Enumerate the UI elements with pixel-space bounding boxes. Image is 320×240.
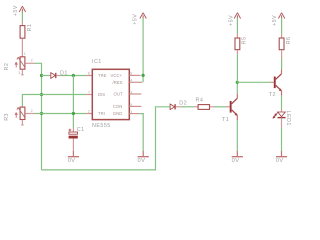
wire R6 to T2 collector <box>281 59 283 70</box>
svg-text:R4: R4 <box>196 97 204 103</box>
capacitor C1 <box>69 132 78 134</box>
supply 0V under C1 <box>72 151 74 156</box>
trimmer R3 wiper arrow <box>15 108 25 119</box>
svg-text:+5V: +5V <box>272 15 278 26</box>
wire C1 vertical <box>72 76 74 128</box>
svg-text:R6: R6 <box>286 37 292 45</box>
svg-text:TRE: TRE <box>98 73 107 78</box>
junction node A2 <box>40 93 43 96</box>
resistor R4 <box>198 105 209 110</box>
pin stub GND pin1 <box>129 113 139 115</box>
svg-text:3: 3 <box>18 71 20 75</box>
svg-text:7: 7 <box>88 91 90 95</box>
pin lead R4 right <box>210 106 214 108</box>
trimmer R2 body <box>20 57 25 69</box>
supply +5V arrow P2 <box>140 13 146 20</box>
svg-text:0V: 0V <box>232 158 240 164</box>
svg-text:D2: D2 <box>179 101 187 107</box>
svg-text:+5V: +5V <box>133 14 139 25</box>
svg-text:2: 2 <box>88 110 90 114</box>
wire +5V to R6 <box>281 18 283 34</box>
svg-text:R5: R5 <box>242 37 248 45</box>
junction node A4 (C1 top tap on TRE wire) <box>72 74 75 77</box>
wire TRI row <box>35 113 87 115</box>
pin stub TRI pin2 <box>86 113 92 115</box>
pin lead R3 bottom unconnected <box>21 120 23 126</box>
pin stub TRE pin6 <box>86 75 92 77</box>
supply 0V under IC <box>142 151 144 156</box>
LED LED1 <box>273 109 285 128</box>
svg-text:6: 6 <box>88 72 90 76</box>
wire node A to D1 <box>42 75 50 77</box>
wire GND to 0V <box>139 114 143 151</box>
junction node A5 (TRI row, C1 column) <box>72 112 75 115</box>
pin stub T2 base <box>270 81 274 83</box>
diode D2 <box>170 104 181 110</box>
pin lead R1 top <box>21 22 23 26</box>
supply 0V under T1 <box>236 151 238 156</box>
svg-text:C1: C1 <box>77 127 85 133</box>
wire DIS row <box>22 95 86 107</box>
svg-text:DIS: DIS <box>98 92 105 97</box>
wire +5V to R1 <box>21 12 23 22</box>
svg-text:GND: GND <box>113 111 123 116</box>
svg-text:CON: CON <box>113 104 123 109</box>
wire T2 emitter to LED1 <box>281 96 283 109</box>
wire T1 emitter to 0V <box>236 120 238 151</box>
supply +5V arrow P3 <box>234 13 240 20</box>
pin lead R2 wiper <box>25 62 34 64</box>
junction T1 collector node <box>236 81 239 84</box>
svg-text:2: 2 <box>31 59 33 63</box>
supply +5V arrow P4 <box>278 13 284 20</box>
svg-text:LED1: LED1 <box>285 111 291 126</box>
wire T1 collector up <box>236 82 238 94</box>
pin stub VCC+ pin8 <box>129 74 140 76</box>
svg-text:0V: 0V <box>276 158 284 164</box>
svg-text:NE555: NE555 <box>92 123 111 129</box>
supply +5V arrow P1 <box>19 6 25 13</box>
svg-text:T2: T2 <box>269 92 276 98</box>
diode D1 <box>50 73 61 79</box>
pin lead R6 top <box>281 34 283 38</box>
wire net-A vertical <box>41 76 43 171</box>
svg-text:T1: T1 <box>222 117 229 123</box>
svg-text:0V: 0V <box>68 158 76 164</box>
IC1 NE555 box <box>92 69 129 119</box>
svg-text:/RES: /RES <box>113 80 123 85</box>
pin lead R5 top <box>236 34 238 38</box>
svg-text:IC1: IC1 <box>92 59 102 65</box>
svg-text:4: 4 <box>130 79 132 83</box>
junction node A3 <box>40 112 43 115</box>
wire R2 wiper to vertical <box>35 63 42 75</box>
trimmer R3 body <box>20 107 25 119</box>
svg-text:R1: R1 <box>27 24 33 32</box>
svg-text:1: 1 <box>130 110 132 114</box>
svg-text:VCC+: VCC+ <box>111 73 123 78</box>
capacitor C1 plus sign <box>69 129 72 132</box>
wire T1 collector to T2 base <box>237 81 270 83</box>
svg-text:+5V: +5V <box>229 15 235 26</box>
svg-text:3: 3 <box>130 90 132 94</box>
resistor R6 <box>279 38 284 50</box>
wire D1 to TRE <box>61 75 87 77</box>
wire +5V to R5 <box>236 18 238 34</box>
resistor R5 <box>235 38 240 50</box>
svg-text:0V: 0V <box>138 158 146 164</box>
pin lead R5 bottom <box>236 50 238 54</box>
wire R4 to T1 base <box>214 106 226 108</box>
pin lead R6 bottom <box>281 50 283 58</box>
pin lead R1 bottom <box>21 39 23 57</box>
junction VCC node <box>141 74 144 77</box>
transistor T2 <box>274 69 282 95</box>
pin lead R2 bottom unconnected <box>21 70 23 76</box>
pin stub OUT pin3 <box>129 93 141 95</box>
transistor T1 <box>230 94 238 120</box>
pin stub T1 base <box>226 106 230 108</box>
wire LED1 to 0V <box>281 128 283 152</box>
svg-text:R3: R3 <box>4 113 10 121</box>
pin stub CON pin5 <box>129 105 141 107</box>
pin lead R3 wiper <box>25 113 34 115</box>
svg-text:2: 2 <box>31 109 33 113</box>
svg-text:5: 5 <box>130 103 132 107</box>
svg-text:OUT: OUT <box>114 92 123 97</box>
pin stub DIS pin7 <box>86 94 92 96</box>
svg-text:+5V: +5V <box>13 5 19 16</box>
resistor R1 <box>20 26 25 39</box>
svg-text:8: 8 <box>130 72 132 76</box>
pin stub /RES pin4 <box>129 81 142 83</box>
pin lead R4 left <box>194 106 198 108</box>
wire D2 to R4 <box>182 106 195 108</box>
wire bottom rail net-A <box>42 107 170 170</box>
pin lead C1 top <box>72 128 74 132</box>
svg-text:R2: R2 <box>4 63 10 71</box>
wire +5V to VCC <box>142 18 144 82</box>
wire R5 to T1 collector node <box>236 54 238 82</box>
supply 0V under LED1 <box>281 151 283 156</box>
junction node A1 <box>40 74 43 77</box>
svg-text:1: 1 <box>24 52 26 56</box>
pin lead C1 bottom <box>72 139 74 152</box>
svg-text:TRI: TRI <box>98 111 105 116</box>
trimmer R2 wiper arrow <box>15 57 25 68</box>
